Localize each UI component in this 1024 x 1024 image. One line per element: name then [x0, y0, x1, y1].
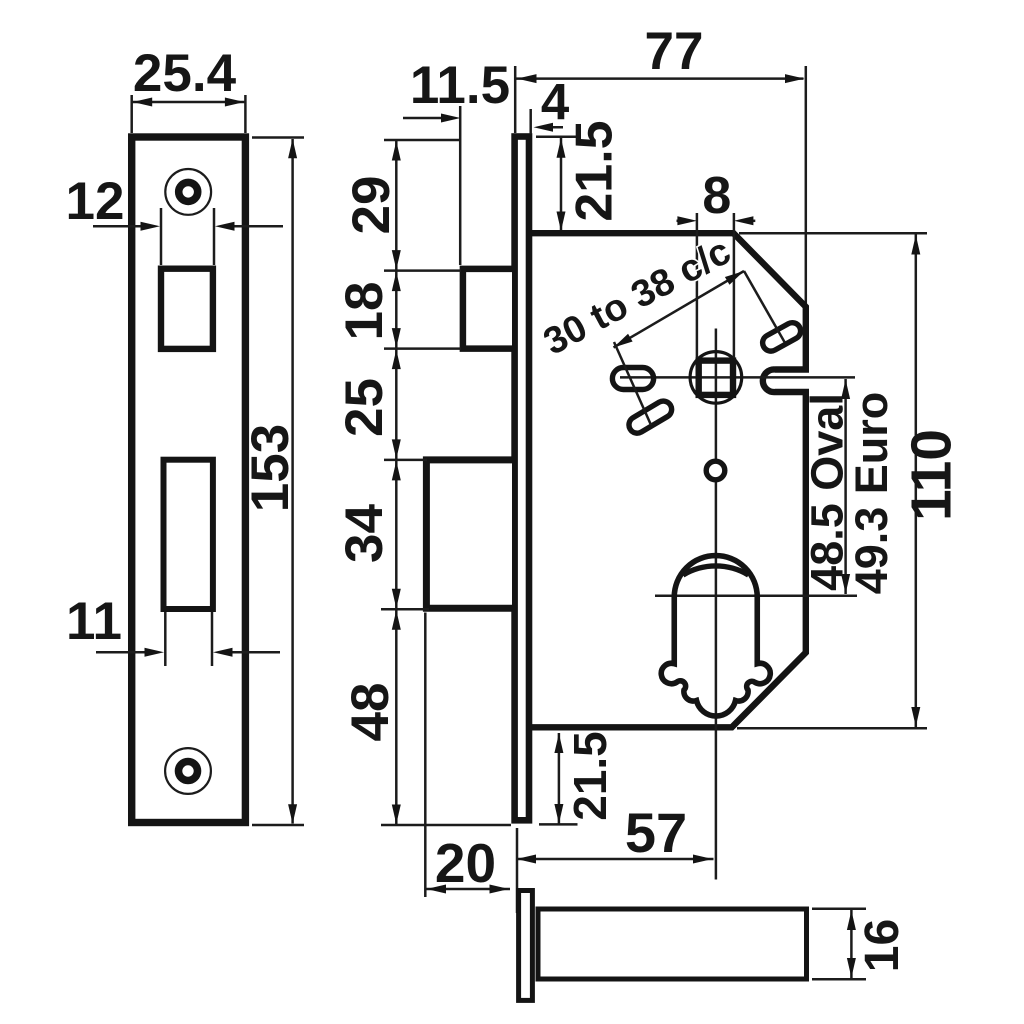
dim 4	[531, 73, 570, 134]
svg-text:16: 16	[856, 919, 909, 972]
follower square hole	[699, 361, 733, 395]
svg-text:12: 12	[66, 172, 125, 231]
dim 77	[515, 22, 806, 307]
svg-text:77: 77	[645, 22, 704, 81]
latch bolt side view	[463, 269, 512, 349]
dim 57	[517, 801, 714, 864]
svg-text:48.5 Oval: 48.5 Oval	[802, 393, 853, 591]
dim 20	[425, 613, 517, 914]
svg-text:49.3 Euro: 49.3 Euro	[846, 392, 897, 595]
svg-text:8: 8	[702, 167, 731, 225]
dim 153	[241, 138, 304, 826]
leader arrow line	[614, 271, 745, 348]
capsule axis line	[614, 342, 651, 425]
cylinder cutout bell	[661, 556, 770, 716]
dim 21.5 bottom	[539, 731, 616, 824]
chain dimension line	[395, 140, 398, 825]
svg-text:25.4: 25.4	[133, 44, 237, 103]
dim 12	[66, 172, 283, 265]
right capsule	[760, 320, 804, 354]
svg-text:20: 20	[435, 832, 496, 894]
latch cutout front view	[161, 269, 213, 349]
dim 21.5 top	[536, 120, 624, 231]
bottom screw hole ring	[179, 762, 198, 781]
svg-text:25: 25	[335, 378, 394, 437]
deadbolt cutout front view	[164, 460, 213, 609]
svg-text:21.5: 21.5	[564, 731, 616, 821]
svg-text:153: 153	[241, 424, 300, 512]
dim 8	[677, 167, 756, 358]
top screw hole ring	[179, 182, 198, 201]
svg-text:11: 11	[66, 592, 122, 651]
svg-text:57: 57	[625, 801, 687, 864]
fixing hole small circle	[706, 461, 725, 480]
svg-text:48: 48	[341, 683, 400, 742]
dim 11	[66, 592, 280, 666]
dim 48.5 line	[802, 379, 898, 594]
leader branch to right capsule	[744, 271, 785, 342]
svg-text:21.5: 21.5	[566, 120, 624, 221]
svg-text:18: 18	[335, 282, 394, 341]
cylinder centre horizontal line	[655, 595, 857, 598]
faceplate side view strip	[515, 137, 529, 821]
oval profile inner arc	[683, 566, 749, 575]
svg-text:34: 34	[335, 504, 394, 563]
dim 16	[812, 909, 909, 980]
chain tick latch bottom	[384, 347, 461, 350]
faceplate front view outline	[132, 137, 246, 823]
chain tick plate bottom	[381, 824, 511, 827]
follower centre horizontal line	[620, 376, 855, 379]
chain tick latch top	[384, 269, 461, 272]
chain tick deadbolt top	[384, 459, 427, 462]
top screw hole outer circle	[165, 169, 211, 215]
bottom view lock case	[538, 909, 807, 979]
follower circle	[690, 352, 742, 404]
chain tick 29 top	[384, 139, 460, 142]
chain arrows	[392, 141, 401, 824]
dim 110	[737, 233, 964, 728]
deadbolt side view	[426, 460, 512, 608]
lock case outline with chamfers and notch	[531, 233, 806, 727]
chain tick deadbolt bottom	[381, 608, 429, 611]
left handle hole capsule	[612, 368, 653, 390]
dim 25.4	[132, 44, 246, 133]
follower centre vertical line	[715, 329, 718, 880]
lower left capsule	[626, 398, 675, 436]
svg-text:29: 29	[342, 176, 401, 235]
svg-text:110: 110	[900, 429, 964, 521]
bottom view faceplate	[519, 891, 533, 1001]
dim 11.5	[403, 56, 510, 265]
bottom screw hole outer circle	[165, 748, 211, 794]
